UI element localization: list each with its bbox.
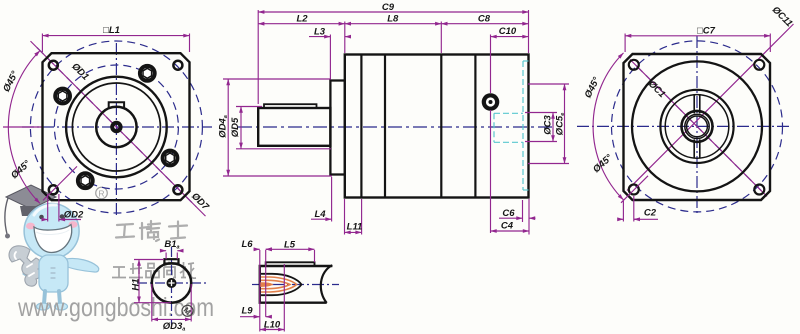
input shaft [258, 108, 330, 146]
dimension B1 arrows [160, 250, 166, 252]
watermark text gongyepin shangcheng [112, 262, 196, 279]
hex socket bolt lower-right [163, 151, 178, 166]
45 degree dimension arc right [593, 53, 623, 200]
shaft end outline [260, 266, 333, 303]
dimension D3 extensions [151, 284, 153, 322]
dimension C5e line [564, 84, 566, 164]
svg-text:L9: L9 [241, 306, 253, 317]
motor pilot large circle [632, 61, 762, 191]
svg-text:ØD2: ØD2 [64, 209, 84, 220]
watermark logo and text (under drawing) [5, 185, 214, 322]
dimension H1 line [138, 260, 140, 303]
dimension D5 line [240, 107, 242, 149]
hub bore inner [687, 116, 708, 137]
dimension D4 extension lines [223, 78, 331, 80]
svg-text:L4: L4 [314, 209, 326, 220]
dimension C2 arrows [618, 218, 624, 220]
svg-text:L5: L5 [284, 240, 296, 251]
section center screw [167, 278, 177, 288]
detail ext vertical L10 [283, 264, 285, 332]
right corner hole top-right [754, 60, 764, 70]
svg-text:□C7: □C7 [697, 25, 716, 36]
left view 45deg radial reference horizontal [3, 126, 42, 128]
motor screw hidden circle [482, 93, 500, 111]
detail ext vertical key-left [265, 250, 267, 317]
svg-text:L2: L2 [296, 13, 308, 24]
gearbox body outline [345, 55, 529, 198]
dimension C2 extensions [622, 201, 624, 222]
shaft section circle [152, 263, 191, 302]
hub ring thick [682, 111, 713, 142]
corner hole bottom-left [49, 185, 58, 194]
watermark registered mark [96, 187, 108, 199]
pilot ring inner [665, 95, 729, 159]
dimension D4 line [227, 79, 229, 176]
middle centerline [238, 126, 553, 128]
left view centerline horizontal [22, 126, 212, 128]
svg-text:Ø45°: Ø45° [583, 75, 603, 100]
dimension B1 extensions [165, 253, 167, 260]
svg-text:ØC5e: ØC5e [555, 113, 567, 136]
dimension C10 extension screw [490, 35, 492, 94]
dimension L3 arrows [324, 36, 330, 38]
dimension C6 arrows [499, 217, 523, 219]
pilot boss circle outer [66, 77, 167, 178]
label H1 [130, 278, 141, 290]
svg-text:ØD3a: ØD3a [163, 321, 186, 333]
dimension L1 extension right [189, 34, 191, 53]
hex socket bolt lower-left [78, 173, 93, 188]
dimension L9 arrows [240, 316, 260, 318]
front flange plate [330, 81, 344, 175]
svg-text:C6: C6 [502, 208, 515, 219]
45 radial bottom-left right view [621, 176, 648, 203]
svg-text:B1a: B1a [164, 239, 179, 251]
svg-text:L11: L11 [347, 221, 363, 232]
keyway slot top [694, 95, 700, 113]
dimension D5 extension lines [236, 106, 262, 108]
dimension L4 extension [331, 177, 333, 222]
right view centerline vertical [696, 36, 698, 216]
shaft key strip [264, 104, 317, 108]
right corner-hole circle dashed [612, 41, 783, 212]
dimension D2 extension lines [47, 194, 49, 222]
right corner hole bottom-left [629, 185, 639, 195]
svg-text:ØD4a: ØD4a [217, 115, 229, 138]
svg-text:ØD7: ØD7 [189, 191, 211, 213]
body internal line 1 [360, 55, 362, 198]
dimension L6 arrows [254, 248, 260, 250]
dimension C1 diagonal line [630, 59, 767, 196]
dimension C4 line [491, 230, 530, 232]
section key [164, 259, 178, 263]
right view centerline horizontal [577, 125, 791, 127]
45 degree dimension arc [8, 51, 40, 204]
dimension L2 line [258, 23, 345, 25]
corner hole top-right [173, 61, 182, 70]
dimension C9 extension lines [257, 10, 259, 104]
label D4 [217, 115, 229, 138]
dimension C7 extensions [624, 34, 626, 53]
section centerline horizontal [137, 282, 206, 284]
svg-text:L10: L10 [264, 320, 281, 331]
shaft break curve [321, 265, 333, 303]
left view bolt circle dashed [54, 65, 178, 189]
svg-text:ØC11: ØC11 [770, 4, 795, 29]
svg-text:C9: C9 [382, 2, 395, 13]
watermark text gong bo shi [116, 221, 187, 241]
dimension C9 line [258, 11, 528, 13]
dimension C4 extension [490, 110, 492, 233]
left view diagonal centerline dashed [37, 48, 196, 207]
detail centerline [252, 284, 339, 286]
dimension L3 extension [329, 35, 331, 80]
svg-text:C8: C8 [478, 13, 491, 24]
corner hole bottom-right [173, 185, 182, 194]
key section curve orange 2 [261, 280, 290, 288]
keyway slot bottom [694, 139, 700, 157]
dimension L1 line [42, 35, 189, 37]
dimension D2 arrow line [44, 219, 48, 221]
detail ext vertical left [259, 250, 261, 332]
label D5 [230, 117, 241, 137]
hidden motor spigot cyan dashed [522, 61, 524, 190]
hex socket bolt upper-left [55, 89, 70, 104]
dimension D1 diagonal line [31, 41, 206, 216]
bore keyway notch [109, 102, 124, 107]
detail key strip [266, 262, 315, 266]
left view centerline vertical [115, 43, 117, 218]
dimension L4 arrow line [311, 218, 332, 220]
svg-text:L3: L3 [314, 26, 326, 37]
dimension L11 line [345, 231, 362, 233]
dimension row2 extensions [344, 22, 346, 54]
dimension C7 line [625, 35, 770, 37]
hub bore [685, 114, 709, 138]
dimension C11 diagonal line [627, 24, 794, 191]
svg-text:L6: L6 [241, 239, 253, 250]
dimension C8 line [441, 23, 528, 25]
body internal line 4 [474, 55, 476, 198]
label C3 [543, 115, 554, 135]
svg-text:ØD5: ØD5 [230, 117, 241, 137]
body internal line 3 [440, 55, 442, 198]
dimension L8 line [345, 23, 442, 25]
center ring [112, 123, 120, 131]
svg-text:C10: C10 [499, 26, 517, 37]
key section core orange [261, 283, 272, 286]
key section curve orange 1 [261, 277, 297, 292]
dimension D3 line [152, 318, 191, 320]
right flange square outline [624, 54, 771, 200]
right corner hole bottom-right [754, 185, 764, 195]
svg-text:□L1: □L1 [103, 25, 120, 36]
corner hole top-left [49, 61, 58, 70]
left view corner-hole circle dashed [30, 41, 202, 213]
svg-text:L8: L8 [387, 13, 399, 24]
detail ext vertical key-right [314, 250, 316, 262]
svg-text:ØC3: ØC3 [543, 115, 554, 135]
label C5e [555, 113, 567, 136]
svg-text:H1: H1 [130, 278, 141, 290]
body internal line 2 [384, 55, 386, 198]
pilot boss circle inner [72, 83, 160, 171]
key section outline black [261, 274, 302, 295]
right corner hole top-left [629, 60, 639, 70]
svg-text:ØC1: ØC1 [646, 79, 668, 101]
45 radial through bottom-left hole [43, 166, 77, 200]
hex socket bolt upper-right [140, 66, 155, 81]
circled M mark [180, 303, 196, 319]
dimension L10 line [260, 329, 285, 331]
pilot ring outer [660, 90, 733, 163]
dimension C3 extension lines [525, 112, 557, 114]
svg-text:C4: C4 [501, 221, 514, 232]
dimension C10 line [491, 36, 529, 38]
watermark robot mascot [9, 204, 99, 311]
right diagonal centerline dashed [636, 65, 762, 191]
svg-text:ØD1: ØD1 [69, 61, 91, 83]
flange square outline [43, 53, 190, 200]
section centerline vertical [171, 247, 173, 325]
shaft bore circle [96, 107, 136, 147]
dimension C3 line [552, 113, 554, 142]
hidden motor shaft cyan dashed box [494, 112, 523, 114]
dimension L11 extensions [344, 199, 346, 235]
watermark graduation cap [5, 185, 56, 239]
svg-text:C2: C2 [644, 207, 657, 218]
dimension H1 extensions [134, 259, 164, 261]
dimension C6 extensions [522, 200, 524, 222]
dimension L1 extension left [41, 34, 43, 53]
dimension C5e extension lines [528, 83, 569, 85]
svg-text:R: R [98, 188, 104, 198]
dimension L5 line [266, 248, 315, 250]
